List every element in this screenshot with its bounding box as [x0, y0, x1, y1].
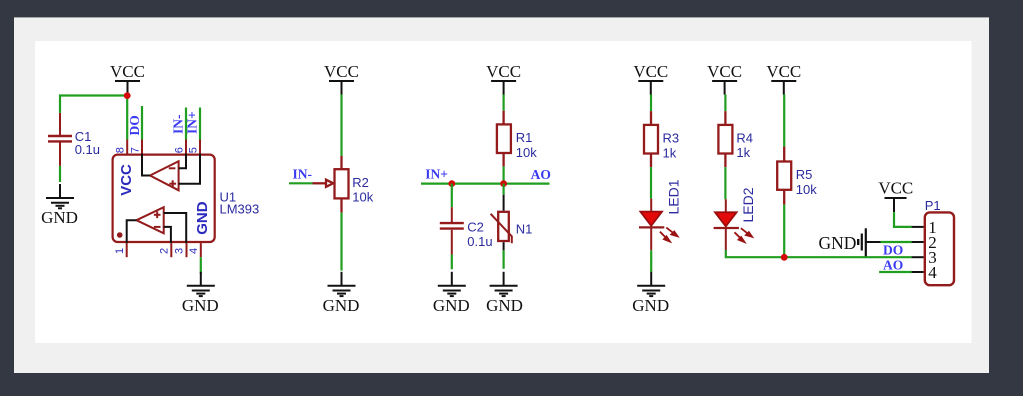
svg-text:R3: R3: [663, 131, 680, 146]
internal wire pin5 to comparator A non-inverting input: [179, 154, 200, 184]
U1 pin 8 stub: [126, 140, 128, 154]
svg-text:LED1: LED1: [666, 179, 682, 214]
svg-text:4: 4: [928, 263, 937, 282]
wire LED2 to DO net: [726, 250, 912, 257]
wire node to N1: [503, 184, 505, 195]
svg-text:1: 1: [114, 248, 126, 254]
wire VCC to R1: [503, 95, 505, 111]
P1 pin 4 stub: [912, 271, 924, 273]
svg-text:1k: 1k: [663, 146, 677, 161]
ground GND (LED1): [632, 272, 669, 315]
svg-text:GND: GND: [41, 208, 78, 227]
svg-text:0.1u: 0.1u: [467, 234, 492, 249]
label R1 10k: [516, 130, 537, 160]
power flag VCC (R4): [707, 62, 742, 95]
junction dot VCC node: [124, 92, 131, 99]
comparator A triangle (top): [150, 161, 179, 190]
wire node to C2: [451, 184, 453, 208]
svg-text:8: 8: [115, 147, 127, 153]
svg-text:6: 6: [173, 147, 185, 153]
svg-text:VCC: VCC: [118, 164, 135, 196]
svg-text:2: 2: [158, 248, 170, 254]
svg-text:GND: GND: [486, 296, 523, 315]
wire net IN- at pin 6: [185, 108, 187, 140]
label C1 0.1u: [75, 129, 100, 157]
U1 pin 1 stub: [126, 243, 128, 257]
wire net AO to P1 pin4: [879, 271, 912, 273]
wire net DO at pin 7: [141, 106, 143, 140]
internal wire comparator B inverting input to pin2: [164, 227, 171, 243]
internal wire pin6 to comparator A inverting input: [179, 154, 186, 169]
wire VCC to R3: [650, 95, 652, 112]
label R4 1k: [736, 131, 753, 161]
junction dot DO node: [781, 254, 788, 261]
svg-text:VCC: VCC: [766, 62, 801, 81]
P1 pin 3 stub: [912, 256, 924, 258]
svg-text:3: 3: [174, 248, 186, 254]
svg-text:P1: P1: [925, 198, 941, 213]
U1 pin 6 stub: [185, 140, 187, 154]
power flag GND (P1 pin2): [858, 228, 880, 256]
wire VCC to R2: [340, 95, 342, 156]
svg-text:GND: GND: [632, 296, 669, 315]
svg-text:R1: R1: [516, 130, 533, 145]
svg-text:R4: R4: [736, 131, 753, 146]
svg-text:5: 5: [187, 147, 199, 153]
power flag VCC (R1): [486, 62, 521, 95]
LED1: [639, 199, 678, 251]
svg-text:LED2: LED2: [740, 187, 756, 222]
svg-text:0.1u: 0.1u: [75, 142, 100, 157]
svg-text:AO: AO: [883, 257, 903, 272]
plus sign comparator B: [154, 212, 161, 219]
svg-text:IN+: IN+: [425, 167, 448, 182]
label R3 1k: [663, 131, 680, 161]
comparator B triangle (bottom): [137, 207, 164, 233]
svg-text:LM393: LM393: [220, 202, 260, 217]
wire N1 to GND: [503, 250, 505, 268]
op-amp U1 body: [113, 155, 215, 242]
P1 pin 1 stub: [912, 226, 924, 228]
svg-text:10k: 10k: [796, 182, 817, 197]
resistor R5: [777, 147, 791, 205]
power flag VCC (R3): [633, 62, 668, 95]
ground GND (C2): [433, 272, 470, 315]
wire R2 to GND: [340, 213, 342, 271]
internal wire comparator B non-inverting input to pin3: [164, 213, 187, 243]
wire R3 to LED1: [650, 167, 652, 198]
wire VCC to R5: [783, 95, 785, 147]
svg-text:GND: GND: [182, 296, 219, 315]
power flag VCC (net of C1/U1 pin8): [110, 62, 145, 95]
resistor R4: [718, 111, 732, 167]
wire R5 to DO net: [783, 205, 785, 258]
svg-text:R5: R5: [796, 167, 813, 182]
varistor N1: [491, 195, 512, 251]
svg-text:IN-: IN-: [171, 115, 186, 135]
svg-text:VCC: VCC: [324, 62, 359, 81]
wire C1 to GND: [59, 166, 61, 182]
svg-text:R2: R2: [352, 175, 369, 190]
label U1 LM393: [220, 190, 260, 217]
svg-text:VCC: VCC: [110, 62, 145, 81]
wire net IN- to R2 wiper: [289, 182, 313, 184]
wire net IN+ / AO horizontal: [421, 183, 550, 185]
connector P1 body: [925, 212, 954, 285]
wire VCC to P1 pin1: [894, 212, 912, 227]
svg-text:10k: 10k: [516, 145, 537, 160]
svg-text:GND: GND: [323, 296, 360, 315]
pin 1 marker dot: [117, 232, 123, 238]
U1 pin 5 stub: [199, 140, 201, 154]
resistor R1: [497, 111, 511, 167]
svg-text:1k: 1k: [736, 145, 750, 160]
ground GND (C1): [41, 184, 78, 227]
U1 pin 2 stub: [170, 243, 172, 257]
resistor R3: [644, 111, 658, 167]
svg-text:VCC: VCC: [486, 62, 521, 81]
ground GND (N1): [486, 272, 523, 315]
wire net IN+ at pin 5: [199, 108, 201, 140]
potentiometer R2: [313, 156, 349, 213]
wire C2 to GND: [451, 255, 453, 270]
power flag VCC (R2): [324, 62, 359, 95]
label R2 10k: [352, 175, 373, 205]
svg-text:IN-: IN-: [293, 167, 313, 182]
svg-text:VCC: VCC: [707, 62, 742, 81]
capacitor C1: [48, 113, 72, 166]
wire VCC to C1 and U1 pin 8: [60, 96, 127, 140]
internal wire comparator B output to pin1: [127, 220, 137, 243]
wire R1 to node: [503, 166, 505, 183]
wire VCC to R4: [724, 95, 726, 112]
wire LED1 to GND: [650, 250, 652, 272]
wire GND to P1 pin2: [881, 241, 912, 243]
ground GND (U1 pin4): [182, 272, 219, 315]
svg-text:10k: 10k: [352, 190, 373, 205]
svg-text:VCC: VCC: [878, 178, 913, 197]
label C2 0.1u: [467, 220, 492, 250]
label R5 10k: [796, 167, 817, 197]
U1 pin 4 stub: [200, 243, 202, 257]
svg-text:C2: C2: [467, 220, 484, 235]
svg-text:DO: DO: [883, 242, 903, 257]
U1 pin 7 stub: [141, 140, 143, 154]
junction dot R1/N1 node: [500, 180, 507, 187]
svg-text:IN+: IN+: [185, 111, 200, 134]
plus sign comparator A: [169, 180, 176, 187]
svg-text:DO: DO: [127, 115, 142, 135]
svg-text:N1: N1: [516, 222, 533, 237]
ground GND (R2): [323, 272, 360, 315]
power flag VCC (R5): [766, 62, 801, 95]
svg-text:GND: GND: [819, 233, 857, 253]
P1 pin 2 stub: [912, 241, 924, 243]
minus sign comparator B: [154, 226, 161, 228]
svg-text:4: 4: [188, 248, 200, 254]
svg-text:AO: AO: [531, 167, 551, 182]
svg-text:GND: GND: [194, 201, 211, 235]
power flag VCC (P1): [878, 178, 913, 212]
junction dot C2 branch: [448, 180, 455, 187]
svg-text:GND: GND: [433, 296, 470, 315]
wire R4 to LED2: [724, 167, 726, 199]
wire U1 pin4 to GND: [200, 257, 202, 274]
U1 pin 3 stub: [186, 243, 188, 257]
svg-text:7: 7: [129, 147, 141, 153]
svg-text:VCC: VCC: [633, 62, 668, 81]
LED2: [714, 199, 753, 250]
internal wire pin7 to comparator A output: [142, 154, 150, 176]
capacitor C2: [440, 207, 464, 254]
minus sign comparator A: [169, 167, 176, 169]
